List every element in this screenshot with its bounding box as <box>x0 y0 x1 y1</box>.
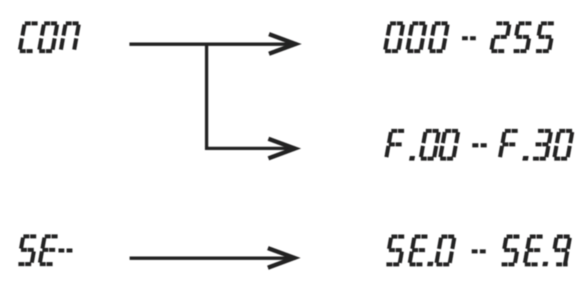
7-seg char "5" <box>514 23 532 51</box>
arrow to F.00-F.30 <box>205 139 296 159</box>
7-seg char "S" <box>386 237 404 265</box>
7-seg char "E" <box>410 237 428 265</box>
7-seg char "0" <box>385 23 403 51</box>
7-seg char "O" <box>39 23 57 51</box>
branch line down <box>205 43 208 150</box>
7-seg char "C" <box>20 23 38 51</box>
7-seg char "0" <box>421 131 439 159</box>
7-seg char "9" <box>554 237 569 265</box>
7-seg char "E" <box>40 236 58 264</box>
7-seg char "E" <box>525 237 543 265</box>
7-seg char "2" <box>491 23 509 51</box>
7-seg char "F" <box>386 131 404 157</box>
7-seg char "0" <box>407 23 425 51</box>
7-seg char "F" <box>500 131 518 157</box>
value range SE.0 - SE.9 <box>386 237 569 266</box>
7-seg char "3" <box>533 131 551 159</box>
value range 000 - 255 <box>385 23 554 51</box>
arrow from COn to 000-255 <box>129 34 296 54</box>
7-seg char "5" <box>536 23 554 51</box>
7-seg char "0" <box>430 23 448 51</box>
7-seg char "0" <box>436 237 454 265</box>
label SE- <box>18 236 72 264</box>
7-seg char "S" <box>502 237 520 265</box>
7-seg char "n" <box>61 23 79 49</box>
label COn <box>20 23 79 51</box>
value range F.00 - F.30 <box>386 131 572 160</box>
arrow from SE- to SE.0-SE.9 <box>130 248 296 268</box>
7-seg char "0" <box>554 131 572 159</box>
7-seg char "S" <box>18 236 36 264</box>
7-seg char "0" <box>440 131 458 159</box>
